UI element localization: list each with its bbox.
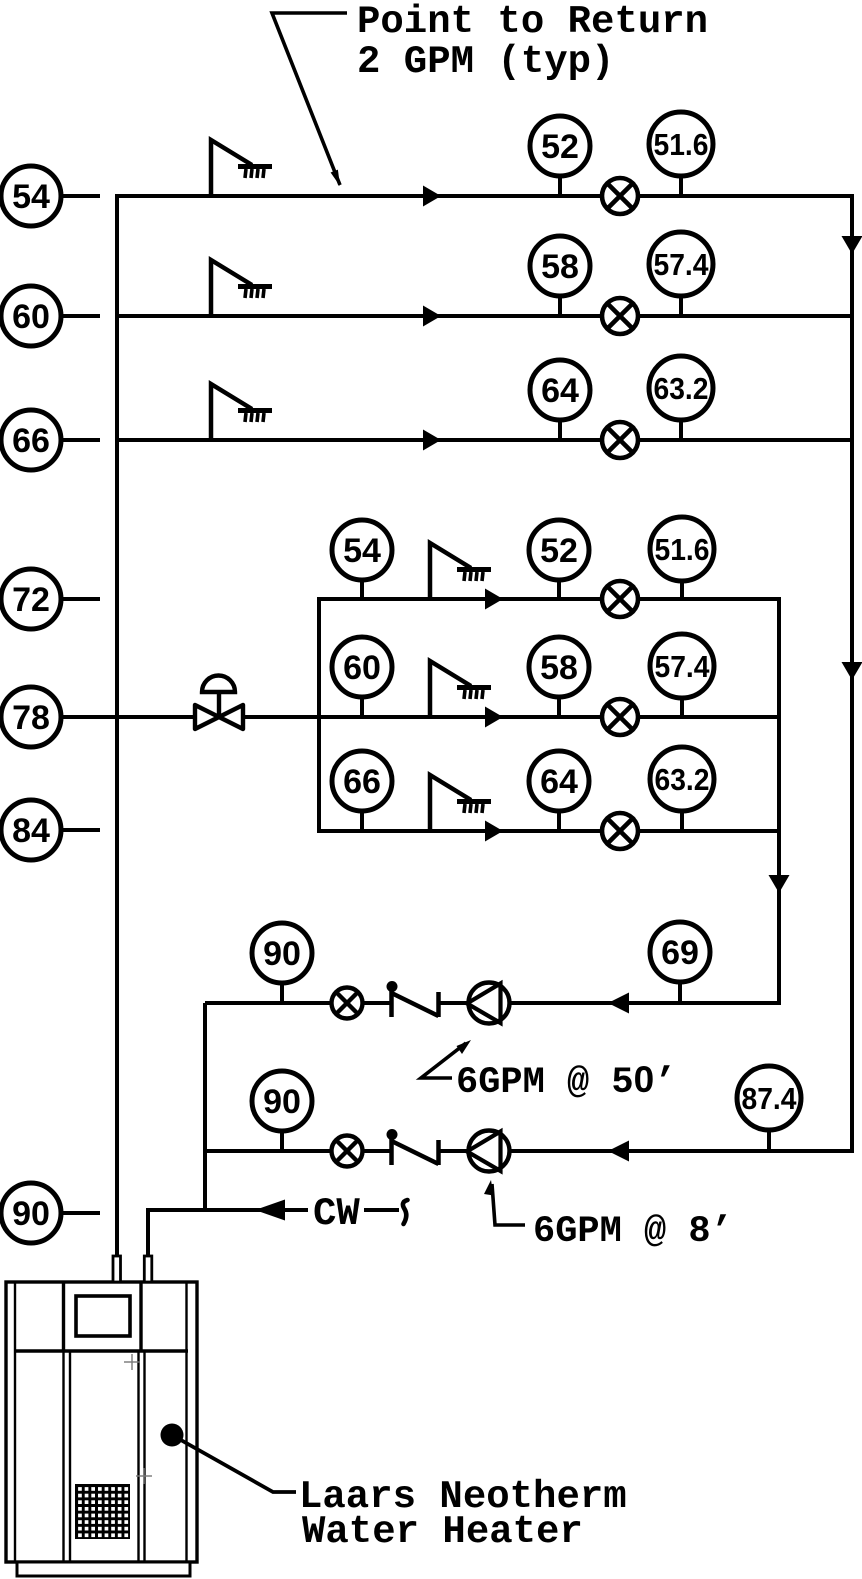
flow arrow row 2 bbox=[423, 306, 441, 327]
pipe: branch row 3 horizontal bbox=[115, 438, 852, 442]
balancing valve row 3 bbox=[602, 422, 638, 458]
svg-text:63.2: 63.2 bbox=[655, 762, 710, 797]
pipe: mixed branch row 78 bbox=[61, 715, 319, 719]
svg-text:87.4: 87.4 bbox=[742, 1081, 798, 1116]
svg-text:Water Heater: Water Heater bbox=[302, 1510, 583, 1554]
svg-text:52: 52 bbox=[540, 532, 578, 570]
balancing valve return 2 bbox=[332, 1136, 363, 1167]
svg-text:64: 64 bbox=[541, 372, 579, 410]
check valve return 2 bbox=[387, 1129, 439, 1165]
pipe: return line 1 bbox=[205, 1001, 781, 1005]
pipe: recirc group box bbox=[317, 599, 781, 831]
sensor circle 64 row 3 bbox=[530, 360, 590, 440]
flow arrow left CW bbox=[255, 1200, 285, 1221]
svg-text:63.2: 63.2 bbox=[654, 371, 709, 406]
flow arrow left return 1 bbox=[608, 993, 629, 1014]
crosshair mark upper bbox=[124, 1354, 140, 1370]
balancing valve return 1 bbox=[332, 988, 363, 1019]
sensor circle 87.4 bbox=[737, 1066, 801, 1151]
water heater base bbox=[17, 1562, 190, 1576]
shower head row 1 bbox=[211, 140, 272, 196]
svg-text:60: 60 bbox=[12, 298, 50, 336]
svg-text:58: 58 bbox=[540, 649, 578, 687]
svg-text:54: 54 bbox=[343, 532, 381, 570]
svg-text:CW: CW bbox=[313, 1192, 360, 1236]
flow arrow box row 1 bbox=[485, 589, 503, 610]
svg-text:90: 90 bbox=[12, 1195, 50, 1233]
sensor circle 60 box row 2 bbox=[332, 637, 392, 717]
svg-text:90: 90 bbox=[263, 1083, 301, 1121]
check valve return 1 bbox=[387, 981, 439, 1017]
pipe: branch row 1 horizontal bbox=[115, 194, 854, 198]
pipe break tick bbox=[403, 1200, 408, 1224]
sensor circle 51.6 box row 1 bbox=[650, 517, 714, 599]
pipe: heater inlet drop bbox=[146, 1208, 150, 1258]
shower head box row 3 bbox=[430, 775, 491, 831]
leader note: Laars Neotherm Water Heater bbox=[161, 1424, 627, 1555]
leader note: 6GPM @ 50' bbox=[421, 1040, 676, 1104]
sensor circle 69 bbox=[650, 922, 710, 1003]
pump P2 bbox=[467, 1131, 510, 1172]
balancing valve row 1 bbox=[602, 178, 638, 214]
sensor circle 58 row 2 bbox=[530, 236, 590, 316]
sensor circle 90 return 1 bbox=[252, 923, 312, 1003]
balancing valve box row 1 bbox=[602, 581, 638, 617]
pipe: CW stub with break bbox=[364, 1208, 399, 1212]
crosshair mark lower bbox=[136, 1468, 152, 1484]
water heater display panel bbox=[76, 1296, 130, 1336]
sensor circle 64 box row 3 bbox=[529, 751, 589, 831]
svg-text:54: 54 bbox=[12, 178, 50, 216]
water heater vent grille bbox=[75, 1484, 130, 1539]
pipe: hot supply main vertical bbox=[115, 194, 119, 1258]
svg-text:51.6: 51.6 bbox=[655, 532, 710, 567]
sensor circle 90 return 2 bbox=[252, 1071, 312, 1151]
flow arrow left return 2 bbox=[608, 1141, 629, 1162]
shower head box row 1 bbox=[430, 543, 491, 599]
leader note: 6GPM @ 8' bbox=[484, 1180, 733, 1253]
shower head row 3 bbox=[211, 384, 272, 440]
svg-text:Point to Return: Point to Return bbox=[357, 0, 708, 44]
svg-text:57.4: 57.4 bbox=[655, 649, 711, 684]
sensor circle 57.4 row 2 bbox=[649, 232, 713, 316]
pipe: box drop to return line 1 bbox=[777, 831, 781, 1005]
flow arrow down on box drop bbox=[769, 875, 790, 893]
flow arrow row 3 bbox=[423, 430, 441, 451]
sensor circle 52 box row 1 bbox=[529, 520, 589, 599]
svg-text:52: 52 bbox=[541, 128, 579, 166]
shower head row 2 bbox=[211, 260, 272, 316]
svg-text:6GPM @ 8’: 6GPM @ 8’ bbox=[533, 1211, 733, 1253]
shower head box row 2 bbox=[430, 661, 491, 717]
pipe: cold water corner horizontal bbox=[146, 1208, 308, 1212]
heater nipple left bbox=[113, 1256, 121, 1282]
sensor circle 66 box row 3 bbox=[332, 751, 392, 831]
svg-text:51.6: 51.6 bbox=[654, 127, 709, 162]
pipe: left return drop vertical bbox=[203, 1003, 207, 1212]
pipe: right return riser vertical bbox=[850, 194, 854, 1153]
svg-text:66: 66 bbox=[343, 763, 381, 801]
svg-text:58: 58 bbox=[541, 248, 579, 286]
pump P1 bbox=[467, 983, 510, 1024]
flow arrow row 1 bbox=[423, 186, 441, 207]
sensor circle 54 box row 1 bbox=[332, 520, 392, 599]
balancing valve box row 3 bbox=[602, 813, 638, 849]
svg-text:57.4: 57.4 bbox=[654, 247, 710, 282]
mixing valve TMV on row 78 bbox=[195, 676, 243, 729]
flow arrow down on right riser upper bbox=[842, 236, 862, 254]
svg-text:90: 90 bbox=[263, 935, 301, 973]
svg-text:64: 64 bbox=[540, 763, 578, 801]
balancing valve box row 2 bbox=[602, 699, 638, 735]
node: label circle 54 bbox=[1, 166, 100, 226]
node: label circle 60 bbox=[1, 286, 100, 346]
sensor circle 63.2 row 3 bbox=[649, 356, 713, 440]
svg-text:72: 72 bbox=[12, 581, 50, 619]
balancing valve row 2 bbox=[602, 298, 638, 334]
svg-text:84: 84 bbox=[12, 812, 50, 850]
heater nipple right bbox=[144, 1256, 152, 1282]
flow arrow down on right riser lower bbox=[842, 662, 862, 680]
node: label circle 72 bbox=[1, 569, 100, 629]
sensor circle 57.4 box row 2 bbox=[650, 634, 714, 717]
node: label circle 66 bbox=[1, 410, 100, 470]
svg-text:78: 78 bbox=[12, 699, 50, 737]
sensor circle 58 box row 2 bbox=[529, 637, 589, 717]
pipe: return line 2 bbox=[205, 1149, 854, 1153]
water heater cabinet bbox=[6, 1282, 197, 1562]
svg-text:66: 66 bbox=[12, 422, 50, 460]
sensor circle 52 row 1 bbox=[530, 116, 590, 196]
sensor circle 63.2 box row 3 bbox=[650, 747, 714, 831]
node: label circle 78 bbox=[1, 687, 61, 747]
flow arrow box row 3 bbox=[485, 821, 503, 842]
svg-text:60: 60 bbox=[343, 649, 381, 687]
sensor circle 51.6 row 1 bbox=[649, 112, 713, 196]
svg-text:6GPM @ 50’: 6GPM @ 50’ bbox=[456, 1059, 676, 1104]
svg-text:69: 69 bbox=[661, 934, 699, 972]
svg-text:2 GPM (typ): 2 GPM (typ) bbox=[357, 40, 614, 84]
node: label circle 84 bbox=[1, 800, 100, 860]
leader note: Point to Return bbox=[272, 0, 708, 186]
pipe: branch row 2 horizontal bbox=[115, 314, 852, 318]
flow arrow box row 2 bbox=[485, 707, 503, 728]
node: label circle 90 bottom left bbox=[1, 1183, 100, 1243]
